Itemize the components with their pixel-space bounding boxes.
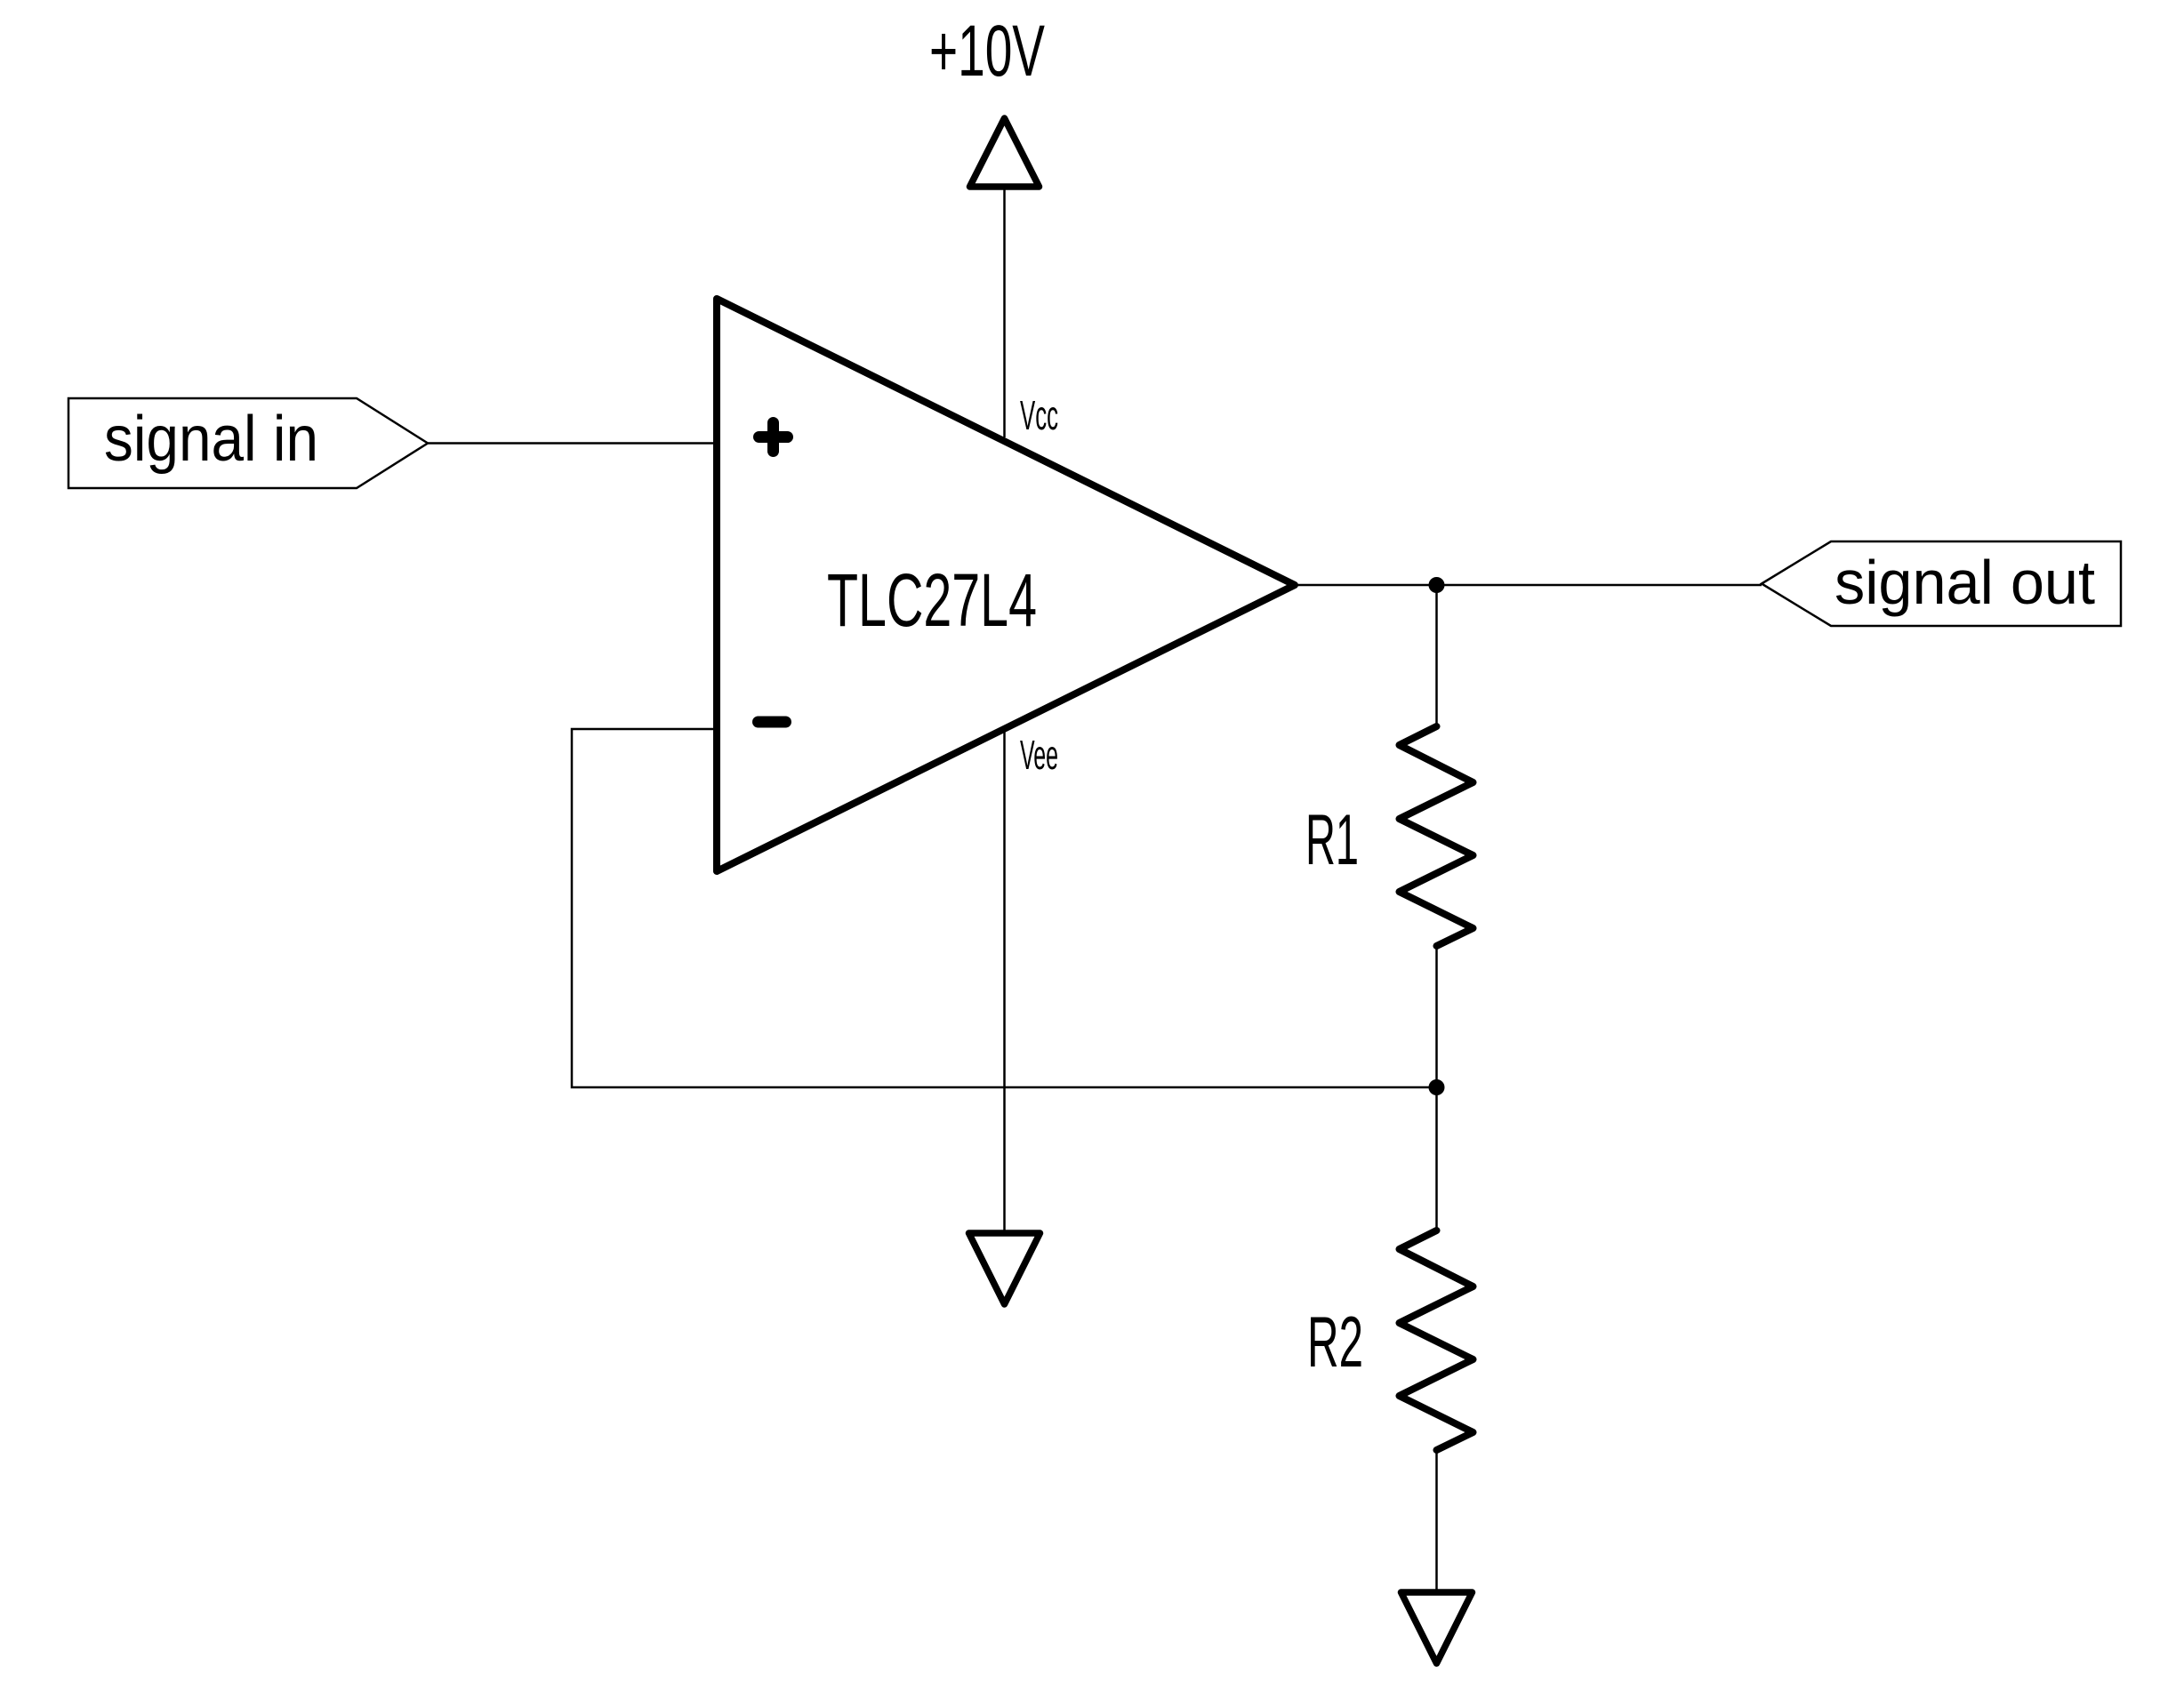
svg-text:Vee: Vee bbox=[1020, 732, 1058, 778]
op-amp minus input marker bbox=[759, 717, 786, 728]
svg-text:signal in: signal in bbox=[104, 404, 318, 475]
wire Vcc supply bbox=[1003, 189, 1006, 437]
wire output bbox=[1295, 584, 1762, 587]
op-amp U1 TLC27L4 body bbox=[717, 299, 1295, 871]
wire output to R1 bbox=[1435, 585, 1438, 726]
resistor R1 body bbox=[1400, 726, 1473, 946]
wire Vee supply bbox=[1003, 731, 1006, 1232]
svg-text:TLC27L4: TLC27L4 bbox=[827, 558, 1037, 642]
wire feedback node to R2 bbox=[1435, 1087, 1438, 1230]
net flag signal out bbox=[1762, 541, 2121, 626]
net flag signal in bbox=[68, 398, 428, 488]
wire R1 to feedback node bbox=[1435, 946, 1438, 1087]
power symbol +10V arrow bbox=[970, 118, 1040, 187]
op-amp plus input marker bbox=[759, 423, 788, 452]
svg-text:R2: R2 bbox=[1307, 1302, 1363, 1382]
svg-text:Vcc: Vcc bbox=[1020, 392, 1058, 438]
wire feedback from inverting input bbox=[572, 729, 1437, 1087]
resistor R2 body bbox=[1400, 1230, 1473, 1450]
junction feedback node bbox=[1429, 1079, 1445, 1095]
wire R2 to ground bbox=[1435, 1450, 1438, 1591]
svg-text:signal out: signal out bbox=[1835, 548, 2095, 617]
svg-text:R1: R1 bbox=[1305, 800, 1359, 880]
power symbol Vee down arrow bbox=[969, 1233, 1040, 1304]
ground symbol bbox=[1401, 1592, 1473, 1663]
junction output node bbox=[1429, 577, 1445, 593]
svg-text:+10V: +10V bbox=[929, 11, 1045, 92]
wire non-inverting input bbox=[428, 442, 713, 445]
